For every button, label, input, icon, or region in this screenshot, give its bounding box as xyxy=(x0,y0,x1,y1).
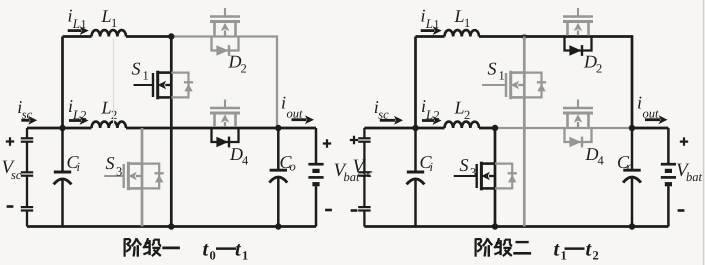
svg-text:sc: sc xyxy=(11,168,22,182)
transistor S3 (phase2) xyxy=(454,175,477,177)
svg-text:D: D xyxy=(583,51,597,71)
node phase1 top rail junction (L1/S1/D2) xyxy=(168,33,174,39)
supercapacitor V_sc (phase2) lead bottom xyxy=(363,211,365,227)
svg-text:S: S xyxy=(132,59,141,79)
node phase2 bottom junction under S3 xyxy=(492,223,498,229)
current arrow i_out (phase2) xyxy=(645,118,660,121)
transistor S3 (phase1) xyxy=(104,175,124,177)
node phase2 input junction (C_i) xyxy=(412,125,418,131)
supercapacitor V_sc (phase1) lead bottom xyxy=(26,211,28,227)
svg-text:i: i xyxy=(281,93,286,113)
svg-text:bat: bat xyxy=(686,170,703,184)
svg-text:L: L xyxy=(72,16,80,31)
minus sign of V_bat (phase1) xyxy=(325,209,332,212)
svg-text:2: 2 xyxy=(596,62,602,76)
plus sign of V_sc (phase1) xyxy=(6,137,14,145)
diode D4 (phase2) xyxy=(565,128,592,142)
svg-text:2: 2 xyxy=(593,249,599,263)
caption phase1 char 阶 xyxy=(123,238,125,256)
svg-text:1: 1 xyxy=(111,16,117,30)
supercapacitor V_sc (phase1) lead top xyxy=(26,128,28,138)
plus sign of V_bat (phase2) xyxy=(680,137,688,145)
minus sign of V_sc (phase2) xyxy=(351,209,358,212)
svg-text:L: L xyxy=(454,6,465,26)
body diode of S1 (phase1) xyxy=(171,73,188,98)
supercapacitor V_sc (phase1) plates xyxy=(21,137,33,139)
caption phase2 char 段 xyxy=(494,238,499,248)
transistor S1 (phase1) xyxy=(134,84,154,86)
transistor of switch D2 (phase2) xyxy=(577,8,579,17)
svg-text:L: L xyxy=(425,16,433,31)
wire phase1 second rail from Vsc to L2 xyxy=(27,127,92,130)
plus sign of V_sc (phase2) xyxy=(350,136,358,144)
plus sign of V_bat (phase1) xyxy=(323,139,331,147)
transistor S1 (phase2) xyxy=(482,84,506,86)
wire phase2 S1 branch vertical xyxy=(523,37,526,227)
body diode of S3 (phase2) xyxy=(495,164,512,189)
svg-text:o: o xyxy=(627,160,633,174)
wire phase2 second rail S3 node to output node (idle) xyxy=(495,127,632,129)
capacitor C_o (phase2) lead top xyxy=(631,128,634,169)
transistor of switch D4 (phase2) xyxy=(577,100,579,109)
node phase2 bottom junction under C_o xyxy=(629,223,635,229)
supercapacitor V_sc (phase2) plates xyxy=(358,137,370,139)
wire phase2 second rail from Vsc to L2 xyxy=(364,127,444,130)
wire phase1 left vertical (input branch) xyxy=(61,37,64,129)
battery V_bat (phase1) cells xyxy=(308,163,323,166)
wire phase1 top rail left segment xyxy=(63,35,92,38)
svg-text:3: 3 xyxy=(116,165,122,179)
svg-text:2: 2 xyxy=(241,62,247,76)
faint scan artifact line xyxy=(113,39,115,126)
battery V_bat (phase1) lead bottom xyxy=(315,186,318,226)
battery V_bat (phase1) lead top xyxy=(315,128,318,163)
wire phase2 top rail from L1 to node xyxy=(479,35,524,38)
svg-text:L: L xyxy=(101,98,112,118)
svg-text:1: 1 xyxy=(499,69,505,83)
current arrow i_sc (phase2) xyxy=(380,119,396,122)
wire phase1 second rail from L2 to battery xyxy=(126,127,316,130)
current arrow i_L2 (phase2) xyxy=(422,119,434,122)
caption phase1 char 段 xyxy=(143,238,148,248)
capacitor C_o (phase2) lead bottom xyxy=(631,178,634,227)
svg-text:2: 2 xyxy=(464,108,470,122)
svg-text:L: L xyxy=(101,6,112,26)
svg-text:sc: sc xyxy=(362,166,373,180)
transistor of switch D2 (phase1) xyxy=(224,8,226,17)
diode D2 (phase1) xyxy=(212,37,239,51)
wire phase1 S1 branch vertical xyxy=(170,37,173,227)
wire phase2 bottom rail xyxy=(364,225,668,228)
svg-text:i: i xyxy=(430,160,434,174)
svg-text:i: i xyxy=(77,160,81,174)
wire phase2 top rail left segment xyxy=(416,35,445,38)
battery V_bat (phase2) lead bottom xyxy=(667,186,670,226)
current arrow i_out (phase1) xyxy=(292,118,307,121)
capacitor C_i (phase1) plates xyxy=(54,171,71,174)
svg-text:D: D xyxy=(585,144,599,164)
capacitor C_i (phase1) lead bottom xyxy=(61,180,64,227)
wire phase1 top rail node to corner and down to output node xyxy=(171,37,277,129)
body diode of S3 (phase1) xyxy=(142,164,159,189)
wire phase2 top rail node to corner and down to output node xyxy=(524,37,632,129)
caption phase2 char 阶 xyxy=(475,238,477,256)
wire phase1 S3 branch vertical xyxy=(141,128,144,227)
svg-text:1: 1 xyxy=(561,249,567,263)
inductor L2 (phase2) xyxy=(445,122,480,128)
supercapacitor V_sc (phase1) inter-cell leads xyxy=(26,142,28,207)
svg-text:i: i xyxy=(421,6,426,26)
current arrow i_L2 (phase1) xyxy=(69,119,81,122)
inductor L2 (phase1) xyxy=(92,122,127,128)
svg-text:1: 1 xyxy=(242,249,248,263)
current arrow i_L1 (phase2) xyxy=(421,29,435,32)
current arrow i_L1 (phase1) xyxy=(68,29,82,32)
node phase2 top rail junction (L1/S1/D2, idle branch) xyxy=(522,34,528,40)
svg-text:D: D xyxy=(229,144,243,164)
capacitor C_o (phase2) plates xyxy=(623,169,640,172)
minus sign of V_bat (phase2) xyxy=(678,209,685,212)
supercapacitor V_sc (phase2) inter-cell leads xyxy=(363,142,365,207)
node phase1 output junction xyxy=(275,125,281,131)
inductor L1 (phase1) xyxy=(92,30,127,36)
svg-text:S: S xyxy=(460,155,469,175)
battery V_bat (phase2) cells xyxy=(661,163,676,166)
svg-text:0: 0 xyxy=(210,249,216,263)
caption phase2 dash xyxy=(565,247,585,250)
battery V_bat (phase2) lead top xyxy=(667,128,670,163)
node phase1 bottom junction under C_o xyxy=(275,223,281,229)
capacitor C_i (phase2) plates xyxy=(407,171,424,174)
capacitor C_i (phase1) lead top xyxy=(61,128,64,171)
capacitor C_o (phase1) lead bottom xyxy=(277,178,280,227)
wire phase2 second rail from L2 to S3 node xyxy=(479,127,496,130)
svg-text:1: 1 xyxy=(464,16,470,30)
wire phase1 top rail from L1 to node xyxy=(126,35,171,38)
svg-text:4: 4 xyxy=(242,154,249,168)
svg-text:S: S xyxy=(488,59,497,79)
caption phase1 char 一 xyxy=(162,247,180,250)
wire phase2 S3 branch vertical xyxy=(494,128,497,227)
node phase2 L2/S3 junction xyxy=(492,125,498,131)
svg-text:o: o xyxy=(290,160,296,174)
transistor of switch D4 (phase1) xyxy=(224,100,226,109)
svg-text:1: 1 xyxy=(143,69,149,83)
caption phase1 dash xyxy=(216,247,236,250)
svg-text:S: S xyxy=(106,153,115,173)
capacitor C_o (phase1) lead top xyxy=(277,128,280,169)
svg-text:4: 4 xyxy=(598,154,605,168)
svg-text:i: i xyxy=(637,93,642,113)
capacitor C_o (phase1) plates xyxy=(270,169,287,172)
diode D4 (phase1) xyxy=(212,128,239,142)
inductor L1 (phase2) xyxy=(445,30,480,36)
caption phase2 char 二 xyxy=(516,241,529,243)
svg-text:3: 3 xyxy=(470,166,476,180)
supercapacitor V_sc (phase2) lead top xyxy=(363,128,365,138)
current arrow i_sc (phase1) xyxy=(21,119,29,122)
node phase1 bottom junction under S1 xyxy=(168,223,174,229)
node phase1 input junction (C_i) xyxy=(59,125,65,131)
body diode of S1 (phase2) xyxy=(524,73,541,98)
wire phase1 bottom rail xyxy=(27,225,316,228)
node phase2 output junction xyxy=(629,125,635,131)
wire phase2 left vertical (input branch) xyxy=(414,37,417,129)
wire phase2 second rail output node to battery xyxy=(632,127,668,130)
page edge line xyxy=(703,0,705,265)
svg-text:L: L xyxy=(454,98,465,118)
diode D2 (phase2) xyxy=(565,37,592,51)
svg-text:i: i xyxy=(68,6,73,26)
minus sign of V_sc (phase1) xyxy=(7,205,14,208)
capacitor C_i (phase2) lead bottom xyxy=(414,180,417,227)
capacitor C_i (phase2) lead top xyxy=(414,128,417,171)
svg-text:D: D xyxy=(228,51,242,71)
